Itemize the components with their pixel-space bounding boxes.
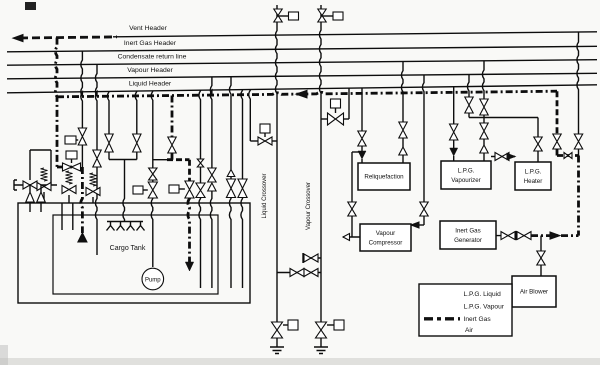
wire to reliquefaction 2 — [401, 62, 403, 122]
wire inert gas jog y167 — [57, 166, 82, 169]
vapour crossover line — [319, 5, 321, 322]
branch from liquid header to crossover — [260, 124, 270, 133]
wire stub into tank x72.8 — [72, 203, 74, 230]
wire vent header line — [113, 32, 597, 37]
valve x469 — [465, 97, 473, 113]
hose valve x231 — [227, 170, 235, 177]
open arrow compressor suction — [343, 234, 350, 241]
box lpg vapourizer — [441, 161, 491, 189]
wire column x200.5 — [199, 90, 201, 159]
wire to heater — [537, 118, 539, 138]
valve air blower — [537, 251, 545, 265]
valve x578.5 — [574, 134, 582, 149]
wire generator outlet — [496, 235, 531, 237]
wire drop x469 — [467, 74, 469, 97]
svg-text:L.P.G.: L.P.G. — [458, 167, 475, 174]
wire drop x97 — [95, 64, 97, 150]
ground liquid crossover — [270, 338, 284, 354]
valve reliq 1 — [358, 131, 366, 146]
arrow into compressor — [411, 222, 419, 228]
hose valve x41 — [40, 185, 42, 192]
valve vapour crossover bottom — [316, 322, 327, 338]
valve generator outlet A — [501, 232, 515, 240]
pump — [142, 268, 164, 290]
small valve x200.5 — [197, 159, 203, 167]
wire right riser x578.5 — [577, 32, 579, 134]
svg-text:Air: Air — [465, 327, 474, 334]
relief valve S2 — [90, 173, 97, 186]
scan mark top left — [25, 2, 36, 10]
valve vapourizer inlet — [450, 124, 458, 140]
wire drop x484 — [482, 61, 484, 99]
wire bold jog y155.5 — [557, 154, 579, 157]
valve x484 upper — [480, 99, 488, 115]
wire vapour header line — [7, 73, 597, 79]
check valve x484 — [480, 145, 488, 153]
inert gas dashed branch to vent (left arrow) — [20, 37, 117, 38]
instrument square A — [65, 136, 76, 144]
valve spray B — [133, 134, 141, 152]
wire pump column into tank — [151, 198, 153, 267]
scan streak bottom — [0, 358, 600, 365]
motor valve on inert jog — [63, 163, 81, 171]
wire inert gas to riser (bold) — [531, 234, 579, 237]
valve x557 — [553, 134, 561, 149]
wire loop top — [30, 149, 51, 151]
svg-text:Inert Gas: Inert Gas — [455, 227, 480, 234]
small valve y155.5 — [564, 153, 572, 159]
cargo tank outer hull — [18, 203, 250, 303]
wire inert jog y159.7 — [167, 158, 190, 161]
arrow into reliquefaction — [358, 151, 366, 159]
wire branch x250.3 — [249, 90, 251, 142]
box air blower — [512, 276, 556, 307]
relief valve top liquid crossover — [274, 9, 282, 22]
valve compressor inlet — [420, 202, 428, 216]
arrow inert gas to riser — [550, 232, 560, 239]
spray nozzles — [107, 221, 143, 223]
valve liquid crossover bottom — [272, 322, 283, 338]
svg-text:Vapour Header: Vapour Header — [127, 67, 173, 74]
arrow into vapourizer — [450, 148, 458, 156]
wire column x231 — [229, 77, 231, 170]
wire drop x109 — [107, 91, 109, 134]
valve on inert tank feed — [78, 128, 86, 145]
box lpg heater — [515, 162, 551, 190]
motor valve branch vapour crossover — [321, 118, 328, 120]
valve pump lower — [148, 182, 157, 198]
vapour branch stub — [303, 257, 321, 259]
svg-text:Pump: Pump — [145, 278, 161, 284]
svg-text:Generator: Generator — [454, 237, 482, 244]
bold drop from inert main x557 — [556, 91, 559, 134]
valve x484 lower — [480, 123, 488, 139]
ground vapour crossover — [314, 338, 328, 354]
wire air blower up — [540, 265, 542, 276]
valve heater top — [534, 137, 542, 151]
legend inert gas sample — [424, 317, 460, 320]
cargo tank inner — [53, 215, 218, 294]
wire drop x82.4 — [81, 51, 83, 128]
wire inert gas riser right — [577, 156, 580, 236]
svg-text:L.P.G.: L.P.G. — [525, 168, 542, 175]
wire relief manifold y185 — [14, 184, 57, 186]
arrow into heater — [507, 154, 515, 160]
wire to reliquefaction 1 — [361, 88, 363, 131]
valve tie A — [290, 269, 304, 277]
svg-text:Liquid Header: Liquid Header — [129, 81, 172, 88]
wire liquid header line — [7, 85, 597, 93]
box vapour compressor — [360, 224, 411, 251]
valve x242.5 — [238, 179, 247, 198]
hose valve x211.9 — [208, 183, 216, 191]
inert gas into tank x189.5 — [188, 160, 191, 181]
wire inert drop x172 — [171, 96, 174, 137]
relief valve S1 — [41, 168, 48, 181]
svg-text:Inert Gas Header: Inert Gas Header — [124, 40, 177, 47]
wire inert gas into tank x82.4 — [81, 167, 83, 233]
blank flange cap — [14, 180, 17, 190]
wire inert gas riser x57 — [55, 38, 57, 167]
wire condensate return line — [7, 60, 597, 65]
wire loop left leg — [29, 150, 31, 180]
svg-text:Cargo Tank: Cargo Tank — [110, 245, 146, 252]
valve on inert drop x172 — [168, 137, 176, 153]
valve on inert tank line — [185, 181, 194, 198]
wire to vapourizer — [453, 87, 455, 124]
arrow inert discharge up — [78, 233, 87, 242]
wire column x211.9 — [210, 77, 212, 168]
valve x231 — [226, 179, 235, 198]
valve reliq 2 — [399, 122, 407, 138]
wire drop x136.8 — [135, 91, 137, 134]
svg-text:Vent Header: Vent Header — [129, 25, 168, 32]
valve spray A — [105, 134, 113, 152]
valve x97 — [93, 150, 101, 167]
wire vapour to compressor — [422, 75, 424, 202]
svg-text:Vapour Crossover: Vapour Crossover — [306, 182, 312, 230]
legend box — [419, 284, 512, 336]
svg-text:Vapour: Vapour — [376, 230, 396, 237]
box reliquefaction — [358, 163, 410, 190]
valve generator outlet B — [517, 232, 531, 240]
wire inert gas main (bold dash-dot) — [57, 91, 557, 97]
svg-text:Inert Gas: Inert Gas — [464, 316, 492, 323]
check valve reliq — [399, 147, 407, 155]
relief valve top vapour crossover — [318, 9, 326, 22]
valve x200.5 — [196, 183, 205, 198]
valve on crossover branch — [258, 137, 272, 145]
svg-text:Liquid Crossover: Liquid Crossover — [262, 173, 268, 218]
wire column x242.5 — [241, 90, 243, 179]
valve tie B — [304, 269, 318, 277]
hose valve x30 — [29, 185, 31, 192]
box inert gas generator — [440, 221, 496, 249]
arrow inert gas flow left — [296, 90, 307, 98]
valve pump upper — [149, 168, 157, 180]
wire loop right leg — [50, 150, 52, 185]
svg-text:Reliquefaction: Reliquefaction — [364, 174, 404, 181]
wire spray drop — [123, 160, 125, 222]
wire gas line y117.5 — [469, 117, 538, 119]
instrument square — [169, 185, 179, 193]
instrument square pump — [133, 186, 143, 194]
crossover tie line — [277, 272, 321, 274]
svg-text:Vapourizer: Vapourizer — [451, 177, 480, 184]
wire pump discharge column — [151, 91, 153, 168]
wire reliq to compressor suction — [352, 151, 362, 153]
liquid crossover line — [275, 5, 277, 322]
svg-text:L.P.G. Vapour: L.P.G. Vapour — [464, 304, 505, 311]
svg-text:Condensate return line: Condensate return line — [118, 54, 187, 61]
valve compressor suction — [348, 202, 356, 216]
svg-text:Heater: Heater — [524, 178, 543, 185]
valve on manifold — [23, 181, 37, 189]
wire inert gas header line — [7, 46, 597, 52]
wire spray U header — [109, 159, 137, 161]
valve vapourizer outlet — [495, 153, 509, 161]
svg-text:Compressor: Compressor — [369, 239, 403, 246]
wire x97 into tank — [95, 167, 97, 255]
relief valve S3 — [66, 171, 73, 184]
valve x211.9 — [208, 168, 216, 182]
wire pump column tie — [153, 159, 167, 161]
svg-text:L.P.G. Liquid: L.P.G. Liquid — [464, 291, 502, 298]
wire stub into tank x62 — [61, 203, 63, 230]
arrow inert discharge down — [185, 262, 193, 271]
wire vapourizer to heater — [491, 156, 515, 158]
svg-text:Air Blower: Air Blower — [520, 289, 548, 296]
